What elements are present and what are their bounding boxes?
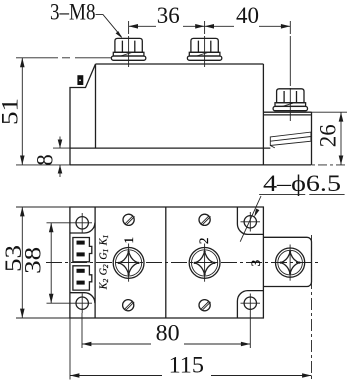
svg-text:2: 2 — [196, 238, 211, 245]
svg-text:51: 51 — [0, 98, 22, 125]
terminal 2 — [189, 244, 220, 282]
bolt2 centerline — [204, 21, 206, 67]
svg-text:26: 26 — [316, 124, 341, 147]
dimension 38 — [21, 223, 54, 303]
label 4-phi6.5 — [259, 171, 345, 196]
terminal 3 — [276, 245, 305, 281]
dimension 115 — [70, 235, 312, 380]
svg-text:4–ϕ6.5: 4–ϕ6.5 — [263, 171, 341, 196]
terminal lug on ledge — [270, 132, 311, 148]
connector G2/K2 — [73, 266, 92, 290]
dimension 8 — [33, 137, 71, 178]
bolt M8 #3 — [273, 89, 307, 111]
center seam — [165, 207, 167, 318]
mounting hole bottom-right — [241, 294, 261, 314]
dimension 51 — [0, 58, 70, 165]
svg-text:80: 80 — [156, 321, 180, 346]
washer plane dash-dot — [16, 57, 112, 59]
notch top-left ear — [70, 223, 95, 233]
notch top-right ear — [237, 207, 263, 234]
notch bottom-left ear — [70, 293, 95, 303]
connector K1/G1 — [73, 238, 92, 262]
notch bottom-right ear — [237, 291, 263, 318]
main horizontal centerline — [46, 262, 320, 264]
svg-text:G2: G2 — [99, 264, 110, 275]
svg-text:G1: G1 — [99, 249, 110, 260]
screw slot top-right — [199, 214, 211, 225]
dimension 36 — [129, 3, 205, 29]
module body outline — [70, 64, 263, 165]
svg-text:8: 8 — [33, 154, 58, 166]
left flange divider — [94, 207, 96, 318]
bolt3 centerline — [289, 21, 291, 121]
screw slot bottom-left — [123, 300, 135, 311]
mounting hole bottom-left — [47, 294, 93, 314]
svg-text:40: 40 — [236, 3, 259, 28]
bolt M8 #1 — [111, 38, 145, 60]
terminal 1 — [113, 244, 144, 282]
svg-text:3–M8: 3–M8 — [50, 0, 96, 25]
dimension 26 — [300, 112, 347, 165]
bolt M8 #2 — [187, 38, 221, 60]
leader 3-M8 — [96, 15, 122, 37]
svg-text:K1: K1 — [99, 235, 110, 246]
screw slot top-left — [123, 214, 135, 225]
svg-text:3: 3 — [248, 260, 263, 267]
screw slot bottom-right — [199, 300, 211, 311]
mounting hole top-left — [47, 213, 93, 233]
bolt1 centerline — [128, 21, 130, 67]
dimension 40 — [205, 3, 291, 29]
baseplate — [70, 148, 312, 165]
indicator component on step — [77, 75, 83, 85]
svg-text:115: 115 — [169, 353, 204, 378]
dimension 80 — [82, 313, 250, 348]
leader 4-phi6.5 — [240, 196, 261, 242]
right terminal ledge — [263, 112, 311, 165]
svg-text:38: 38 — [21, 247, 46, 274]
dimension 53 — [1, 207, 70, 318]
right extension block — [263, 237, 311, 286]
mounting hole top-right — [241, 212, 261, 232]
svg-text:36: 36 — [157, 3, 180, 28]
svg-text:1: 1 — [121, 237, 136, 244]
plan outline — [70, 207, 264, 318]
svg-text:K2: K2 — [99, 279, 110, 291]
